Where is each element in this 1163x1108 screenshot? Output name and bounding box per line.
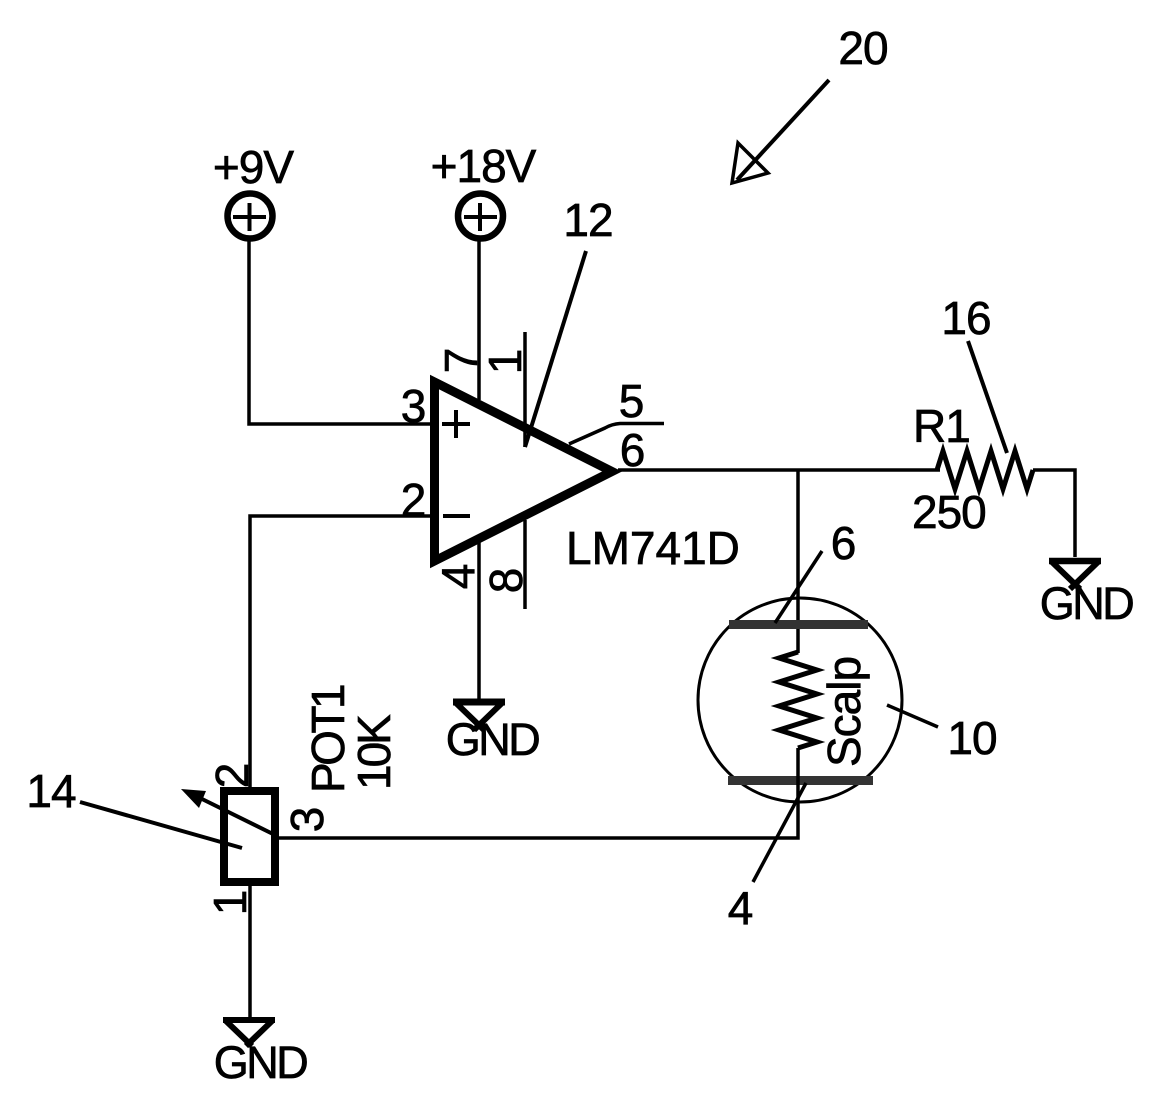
ground (bottom left) bbox=[223, 1020, 275, 1046]
svg-text:4: 4 bbox=[728, 882, 753, 934]
svg-text:2: 2 bbox=[401, 474, 426, 526]
ground (right of R1) bbox=[1049, 561, 1101, 589]
svg-text:3: 3 bbox=[401, 380, 426, 432]
leader line for 10 bbox=[887, 705, 938, 727]
op-amp plus input mark bbox=[442, 410, 470, 438]
svg-text:+9V: +9V bbox=[213, 141, 294, 193]
svg-text:10K: 10K bbox=[348, 714, 400, 790]
wire +9V to op-amp pin 3 bbox=[249, 241, 434, 424]
leader line for 14 bbox=[80, 802, 242, 848]
svg-text:Scalp: Scalp bbox=[818, 657, 870, 767]
svg-text:20: 20 bbox=[838, 22, 887, 74]
scalp circle 10 bbox=[698, 598, 902, 802]
leader line for 12 bbox=[525, 251, 586, 447]
svg-text:250: 250 bbox=[912, 486, 986, 538]
svg-text:+18V: +18V bbox=[431, 140, 537, 192]
pin 1 stub bbox=[523, 332, 527, 447]
leader line for 16 bbox=[968, 341, 1007, 453]
top electrode 6 bbox=[729, 620, 868, 629]
leader line for 4 bbox=[753, 783, 806, 882]
svg-text:3: 3 bbox=[281, 808, 333, 833]
svg-text:1: 1 bbox=[204, 891, 256, 916]
wire output junction down to scalp electrode bbox=[796, 470, 800, 653]
svg-text:6: 6 bbox=[831, 517, 856, 569]
ground (below op-amp) bbox=[453, 702, 505, 730]
svg-text:R1: R1 bbox=[913, 400, 970, 452]
svg-text:14: 14 bbox=[26, 765, 76, 817]
supply +9V symbol bbox=[228, 194, 273, 239]
wire op-amp pin 4 to ground bbox=[477, 541, 481, 702]
POT1 wiper arrow bbox=[200, 798, 275, 835]
svg-text:4: 4 bbox=[432, 564, 484, 589]
svg-text:GND: GND bbox=[1040, 578, 1134, 629]
op-amp U1 LM741D triangle bbox=[435, 382, 613, 561]
scalp resistance zigzag bbox=[779, 652, 817, 748]
wire op-amp pin 2 to POT1 pin 2 bbox=[250, 516, 434, 791]
svg-text:GND: GND bbox=[214, 1037, 308, 1088]
leader line for 6 bbox=[775, 551, 822, 623]
wire R1 to ground bbox=[1033, 470, 1075, 557]
svg-text:2: 2 bbox=[206, 764, 258, 789]
wire +18V to op-amp pin 7 bbox=[477, 241, 481, 400]
svg-text:16: 16 bbox=[941, 292, 990, 344]
pin 8 stub bbox=[523, 520, 527, 609]
wire POT1 pin 1 to ground bbox=[248, 882, 252, 1019]
arrow leader for 20 bbox=[732, 80, 829, 183]
wire op-amp output bbox=[618, 468, 940, 472]
svg-text:12: 12 bbox=[563, 194, 612, 246]
resistor R1 bbox=[937, 451, 1033, 489]
svg-text:10: 10 bbox=[947, 712, 996, 764]
wire scalp bottom to POT pin 3 bbox=[275, 748, 798, 838]
op-amp minus input mark bbox=[443, 514, 470, 518]
potentiometer POT1 body bbox=[224, 791, 275, 882]
bottom electrode 4 bbox=[728, 776, 873, 785]
svg-text:POT1: POT1 bbox=[302, 685, 354, 793]
svg-text:6: 6 bbox=[620, 424, 645, 476]
svg-text:5: 5 bbox=[619, 375, 644, 427]
svg-text:GND: GND bbox=[446, 714, 540, 765]
svg-text:1: 1 bbox=[479, 350, 531, 375]
supply +18V symbol bbox=[458, 194, 503, 239]
svg-text:LM741D: LM741D bbox=[566, 522, 740, 574]
